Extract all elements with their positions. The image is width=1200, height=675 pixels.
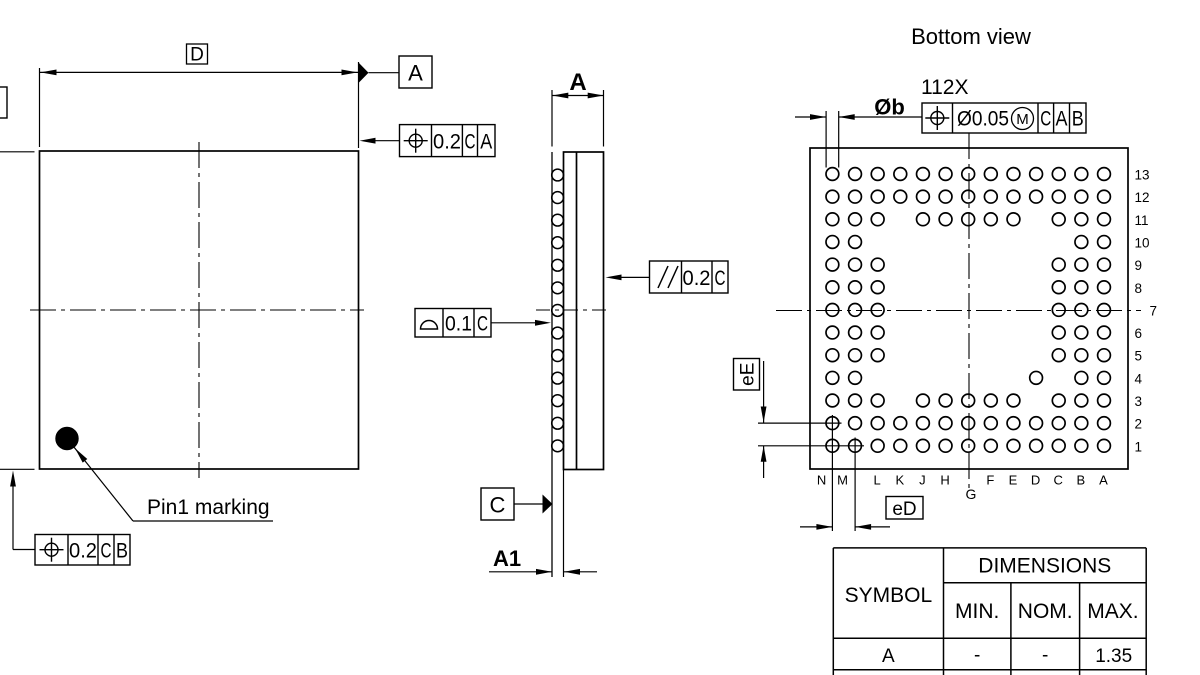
- svg-text:1.35: 1.35: [1095, 646, 1132, 667]
- svg-text:Øb: Øb: [874, 95, 905, 120]
- svg-text:eE: eE: [738, 363, 759, 386]
- svg-text:C: C: [465, 131, 476, 154]
- svg-text:C: C: [101, 540, 112, 563]
- svg-text:1: 1: [1135, 439, 1143, 454]
- svg-text:12: 12: [1135, 190, 1150, 205]
- svg-text:E: E: [1009, 473, 1018, 488]
- svg-text:A: A: [408, 61, 423, 86]
- svg-text:6: 6: [1135, 326, 1143, 341]
- svg-text:0.2: 0.2: [69, 540, 97, 563]
- svg-text:Bottom view: Bottom view: [911, 24, 1031, 49]
- svg-text:D: D: [1031, 473, 1040, 488]
- svg-text:G: G: [966, 486, 977, 502]
- svg-text:M: M: [837, 473, 848, 488]
- svg-text:0.2: 0.2: [433, 131, 461, 154]
- svg-text:L: L: [874, 473, 881, 488]
- svg-text:10: 10: [1135, 235, 1150, 250]
- svg-text:11: 11: [1135, 213, 1149, 228]
- svg-text:NOM.: NOM.: [1018, 600, 1073, 623]
- svg-text:-: -: [1042, 645, 1048, 666]
- svg-text:Pin1 marking: Pin1 marking: [147, 496, 270, 519]
- svg-text:A: A: [569, 69, 586, 96]
- svg-text:B: B: [1077, 473, 1086, 488]
- svg-text:C: C: [1054, 473, 1063, 488]
- svg-text:J: J: [919, 473, 926, 488]
- svg-text:MIN.: MIN.: [955, 600, 999, 623]
- svg-text:A1: A1: [493, 546, 521, 571]
- svg-text:112X: 112X: [921, 76, 969, 99]
- svg-text:A: A: [1056, 108, 1068, 131]
- svg-text:0.2: 0.2: [683, 267, 711, 290]
- svg-text:F: F: [986, 473, 994, 488]
- svg-text:8: 8: [1135, 281, 1143, 296]
- svg-text:13: 13: [1135, 168, 1150, 183]
- svg-text:MAX.: MAX.: [1087, 600, 1138, 623]
- svg-text:M: M: [1016, 111, 1029, 128]
- svg-text:SYMBOL: SYMBOL: [845, 584, 933, 607]
- svg-text:C: C: [490, 493, 506, 518]
- svg-text:A: A: [882, 646, 895, 667]
- svg-text:C: C: [1040, 108, 1051, 131]
- svg-text:K: K: [895, 473, 904, 488]
- svg-text:5: 5: [1135, 349, 1143, 364]
- svg-text:C: C: [715, 267, 726, 290]
- svg-text:9: 9: [1135, 258, 1143, 273]
- svg-text:7: 7: [1150, 303, 1158, 318]
- svg-text:H: H: [940, 473, 949, 488]
- svg-text:Ø0.05: Ø0.05: [957, 108, 1009, 131]
- svg-text:C: C: [477, 313, 488, 336]
- svg-text:0.1: 0.1: [445, 313, 472, 336]
- svg-text:DIMENSIONS: DIMENSIONS: [978, 555, 1111, 578]
- svg-text:A: A: [480, 131, 492, 154]
- svg-text:2: 2: [1135, 417, 1143, 432]
- svg-text:A: A: [1099, 473, 1108, 488]
- svg-text:B: B: [1072, 108, 1084, 131]
- svg-text:4: 4: [1135, 371, 1143, 386]
- svg-text:3: 3: [1135, 394, 1143, 409]
- svg-text:eD: eD: [892, 499, 916, 520]
- svg-text:B: B: [116, 540, 128, 563]
- svg-text:N: N: [817, 473, 826, 488]
- svg-text:-: -: [974, 645, 980, 666]
- svg-text:D: D: [190, 45, 204, 66]
